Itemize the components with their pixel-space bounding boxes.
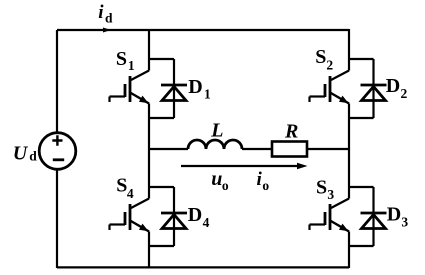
svg-text:L: L [210,120,223,142]
wire left rail lower [56,170,58,268]
diode D2 [361,59,387,118]
svg-text:u: u [211,168,222,190]
label i_o [257,169,270,193]
diode D4 [161,187,187,246]
wire right leg middle [348,118,350,187]
svg-text:2: 2 [326,58,333,73]
label S1 [116,48,135,73]
wire S3 bottom connection [349,245,374,247]
wire S2 bottom connection [349,117,374,119]
svg-text:U: U [13,142,29,164]
svg-text:S: S [316,176,327,198]
wire bottom rail [57,266,349,268]
diode D3 [361,187,387,246]
svg-text:2: 2 [401,86,408,101]
transistor S1 [110,59,150,118]
svg-text:o: o [262,178,269,193]
label S2 [315,46,333,73]
svg-text:4: 4 [203,215,210,230]
transistor S4 [110,187,150,246]
svg-text:d: d [29,149,37,164]
wire left leg middle [148,118,150,187]
label D1 [188,76,211,102]
wire mid rail right [307,148,349,150]
output arrow [181,163,308,169]
wire mid rail center [242,148,272,150]
wire S1 top connection [149,58,174,60]
transistor S2 [310,59,350,118]
svg-text:S: S [116,175,127,197]
svg-text:i: i [98,2,104,23]
label D2 [386,75,408,101]
label S3 [316,176,334,202]
wire left leg top [148,29,150,59]
svg-text:3: 3 [401,215,408,230]
wire right leg top [348,29,350,59]
wire S2 top connection [349,58,374,60]
svg-text:S: S [315,46,326,68]
svg-text:S: S [116,48,127,70]
label u_o [211,168,229,193]
inductor L [188,140,242,149]
svg-text:1: 1 [204,86,211,101]
wire mid rail left [149,148,188,150]
wire right leg bottom [348,246,350,268]
svg-text:D: D [387,203,401,225]
diode D1 [161,59,187,118]
svg-text:4: 4 [127,186,134,201]
wire left leg bottom [148,246,150,268]
svg-text:o: o [222,178,229,193]
label D3 [387,203,409,229]
svg-text:d: d [105,11,113,26]
current arrow id [103,28,111,33]
label D4 [188,204,210,230]
label Ud [13,142,37,164]
wire top rail [57,29,349,31]
voltage source Ud [39,133,76,170]
svg-text:R: R [284,121,298,143]
label S4 [116,175,134,202]
transistor S3 [310,187,350,246]
label i_d [98,2,113,25]
wire S4 top connection [149,186,174,188]
svg-text:D: D [386,75,400,97]
wire left rail upper [56,30,58,132]
wire S4 bottom connection [149,245,174,247]
svg-text:D: D [188,76,202,98]
svg-text:1: 1 [128,58,135,73]
resistor R [272,142,307,157]
svg-text:3: 3 [327,187,334,202]
wire S1 bottom connection [149,117,174,119]
wire S3 top connection [349,186,374,188]
svg-text:D: D [188,204,202,226]
